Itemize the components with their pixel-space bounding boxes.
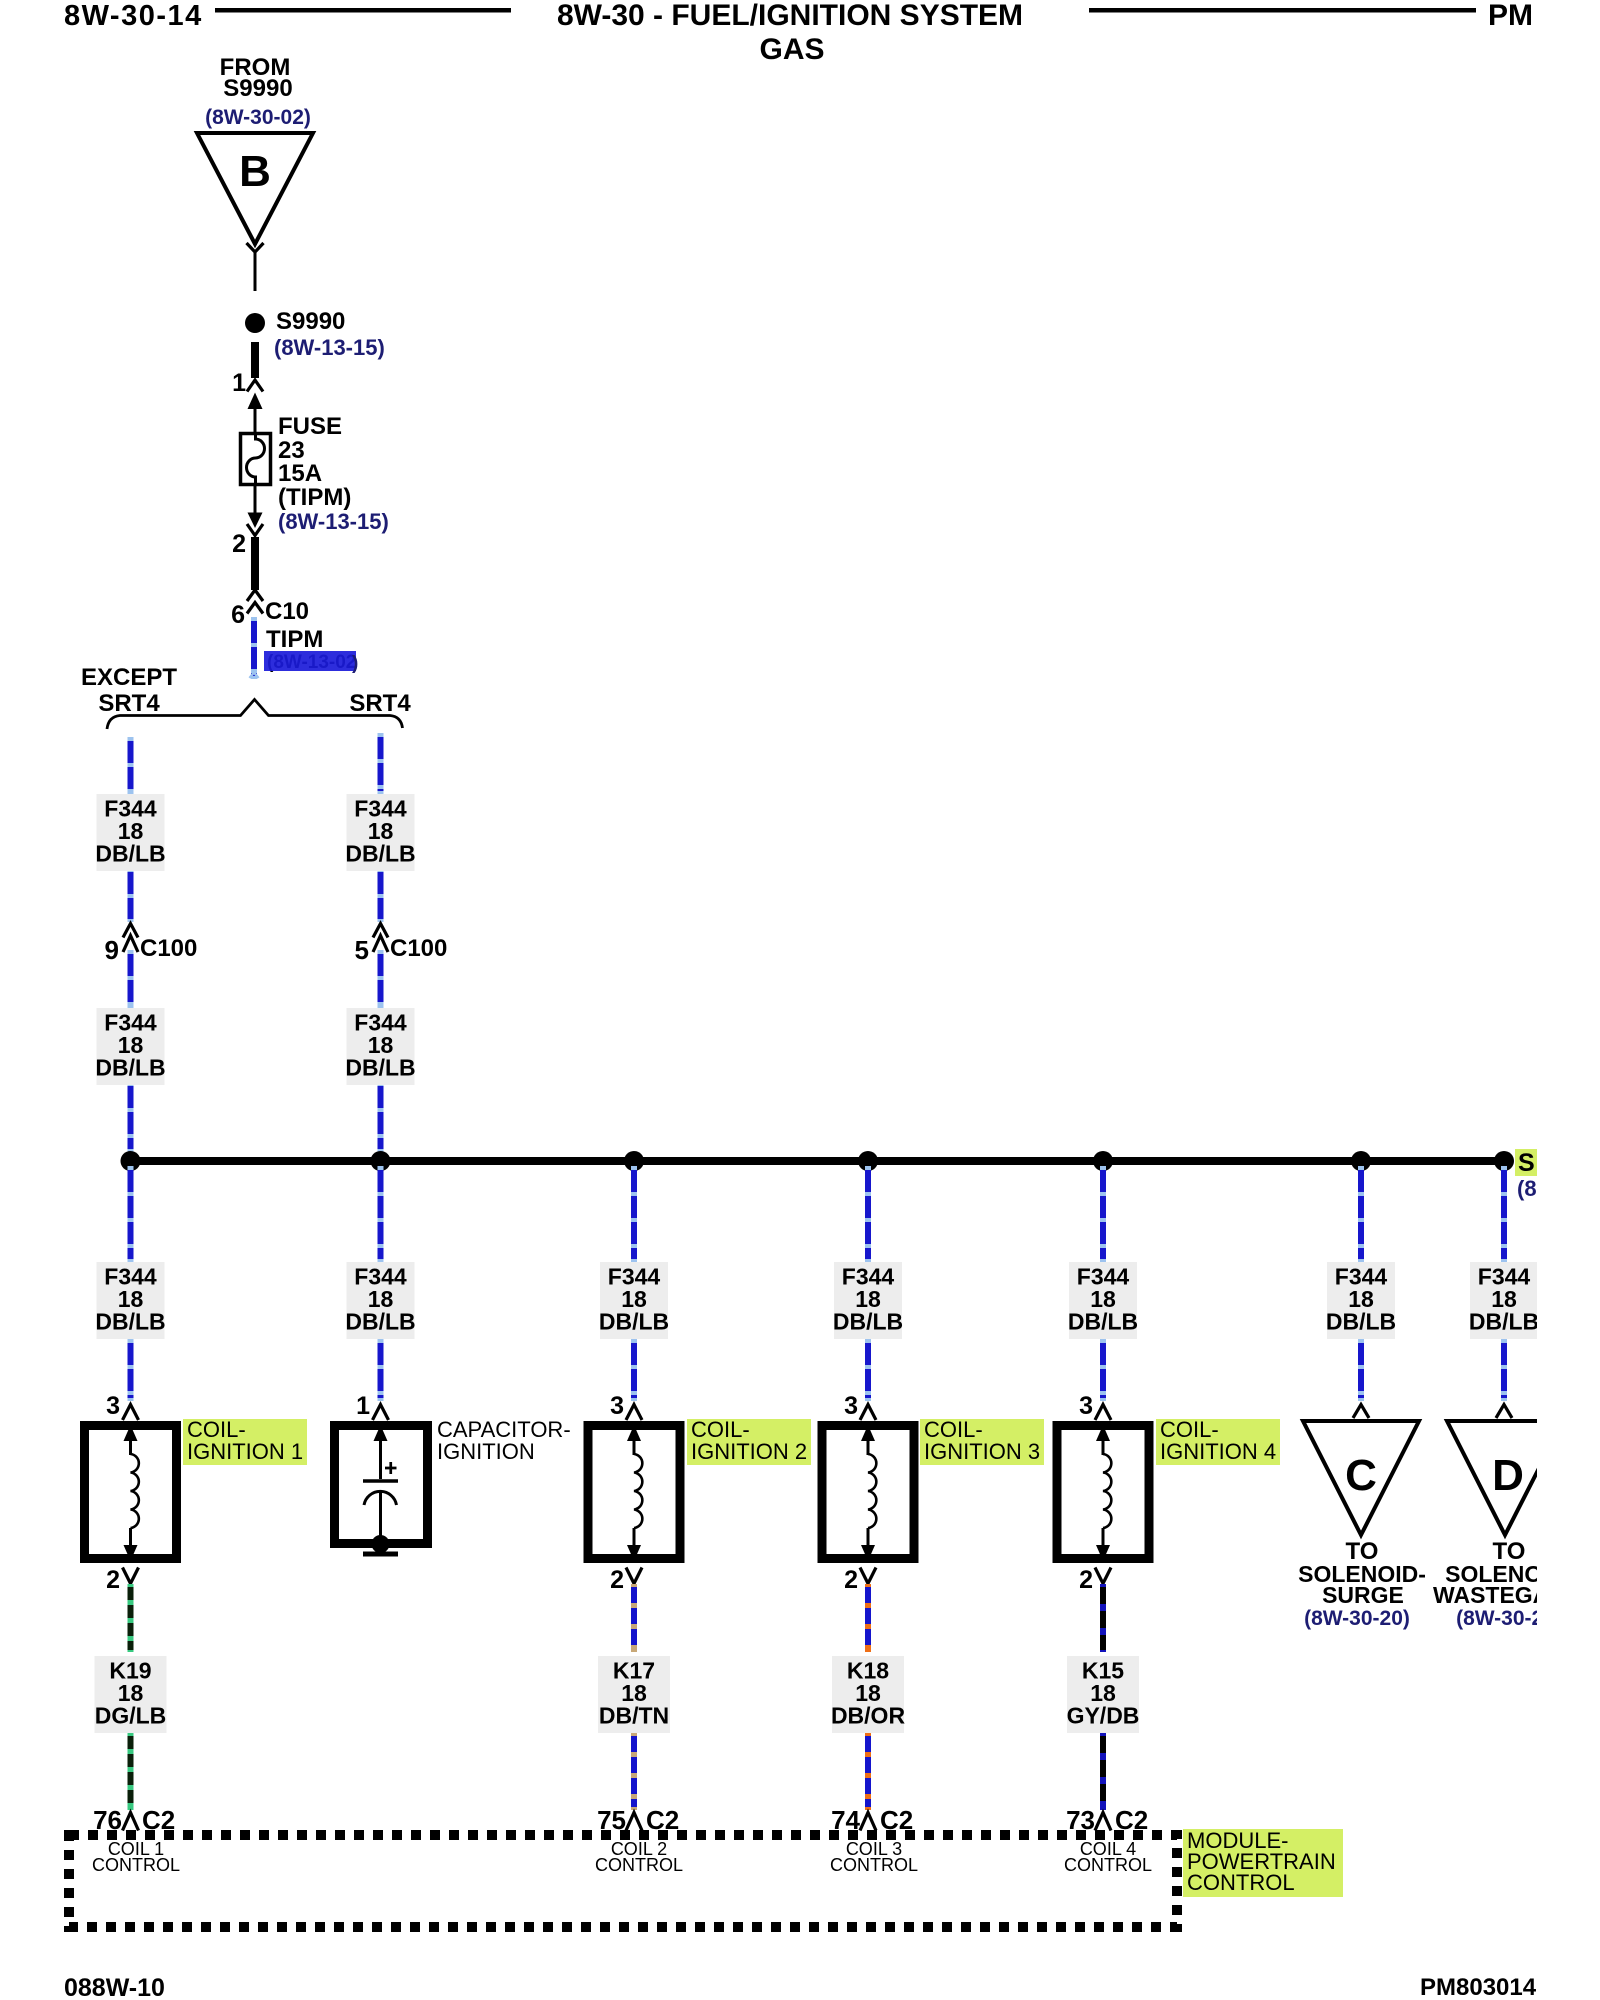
svg-text:S9990: S9990 [276, 308, 345, 335]
svg-text:3: 3 [106, 1392, 120, 1420]
svg-text:S: S [1518, 1149, 1535, 1177]
svg-text:B: B [239, 147, 271, 196]
svg-text:DB/LB: DB/LB [599, 1309, 669, 1335]
svg-text:C: C [1345, 1451, 1377, 1500]
svg-text:SRT4: SRT4 [98, 690, 160, 717]
svg-text:GAS: GAS [759, 33, 824, 66]
svg-text:C10: C10 [265, 598, 309, 625]
svg-text:DB/TN: DB/TN [599, 1703, 669, 1729]
svg-text:(8W-30-20): (8W-30-20) [1304, 1607, 1410, 1630]
svg-text:PM803014: PM803014 [1420, 1974, 1537, 2000]
svg-text:IGNITION 3: IGNITION 3 [924, 1439, 1040, 1464]
svg-text:DB/LB: DB/LB [95, 1309, 165, 1335]
svg-text:1: 1 [356, 1392, 370, 1420]
svg-text:8W-30-14: 8W-30-14 [64, 0, 203, 32]
svg-text:DB/LB: DB/LB [1469, 1309, 1539, 1335]
svg-text:2: 2 [232, 530, 246, 558]
svg-text:3: 3 [610, 1392, 624, 1420]
svg-text:DB/LB: DB/LB [95, 841, 165, 867]
svg-text:IGNITION: IGNITION [437, 1439, 535, 1464]
svg-text:TIPM: TIPM [266, 626, 323, 653]
svg-text:DB/OR: DB/OR [831, 1703, 906, 1729]
svg-text:CONTROL: CONTROL [1187, 1870, 1295, 1895]
svg-text:2: 2 [610, 1566, 624, 1594]
svg-text:DB/LB: DB/LB [345, 1055, 415, 1081]
svg-text:IGNITION 1: IGNITION 1 [187, 1439, 303, 1464]
svg-text:GY/DB: GY/DB [1067, 1703, 1140, 1729]
svg-text:CONTROL: CONTROL [830, 1855, 918, 1875]
svg-text:9: 9 [105, 935, 119, 965]
svg-text:): ) [352, 653, 358, 674]
svg-text:1: 1 [232, 369, 246, 397]
svg-text:2: 2 [1079, 1566, 1093, 1594]
svg-text:PM: PM [1488, 0, 1533, 32]
svg-text:DB/LB: DB/LB [1068, 1309, 1138, 1335]
svg-text:15A: 15A [278, 460, 322, 487]
svg-text:3: 3 [1079, 1392, 1093, 1420]
svg-text:EXCEPT: EXCEPT [81, 664, 177, 691]
svg-text:IGNITION 4: IGNITION 4 [1160, 1439, 1276, 1464]
svg-text:2: 2 [106, 1566, 120, 1594]
svg-text:DB/LB: DB/LB [1326, 1309, 1396, 1335]
svg-text:6: 6 [231, 601, 245, 629]
svg-text:088W-10: 088W-10 [64, 1974, 165, 2000]
svg-text:DB/LB: DB/LB [95, 1055, 165, 1081]
svg-text:SRT4: SRT4 [349, 690, 411, 717]
svg-text:SURGE: SURGE [1322, 1582, 1404, 1608]
svg-text:DB/LB: DB/LB [345, 841, 415, 867]
svg-text:D: D [1492, 1451, 1524, 1500]
svg-text:CONTROL: CONTROL [1064, 1855, 1152, 1875]
svg-text:(8W-13-15): (8W-13-15) [278, 509, 389, 534]
svg-text:IGNITION 2: IGNITION 2 [691, 1439, 807, 1464]
svg-text:(TIPM): (TIPM) [278, 484, 351, 511]
svg-text:3: 3 [844, 1392, 858, 1420]
svg-text:(8W-13-15): (8W-13-15) [274, 335, 385, 360]
svg-text:DB/LB: DB/LB [833, 1309, 903, 1335]
svg-text:C100: C100 [390, 935, 447, 962]
svg-text:DG/LB: DG/LB [95, 1703, 167, 1729]
svg-text:CONTROL: CONTROL [595, 1855, 683, 1875]
svg-text:(8W-30-02): (8W-30-02) [205, 106, 311, 129]
svg-text:FUSE: FUSE [278, 413, 342, 440]
svg-text:(8: (8 [1517, 1176, 1537, 1201]
svg-text:S9990: S9990 [223, 75, 292, 102]
svg-text:5: 5 [355, 935, 369, 965]
svg-text:8W-30 - FUEL/IGNITION SYSTEM: 8W-30 - FUEL/IGNITION SYSTEM [557, 0, 1023, 32]
svg-text:DB/LB: DB/LB [345, 1309, 415, 1335]
svg-text:2: 2 [844, 1566, 858, 1594]
svg-text:C100: C100 [140, 935, 197, 962]
svg-text:CONTROL: CONTROL [92, 1855, 180, 1875]
